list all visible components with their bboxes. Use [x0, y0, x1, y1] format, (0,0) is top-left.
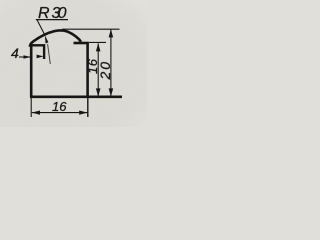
dimension line 16 bottom [32, 112, 88, 114]
leader line R30 [37, 20, 45, 35]
extension line top (for 20) [62, 28, 120, 30]
leader tail line R30 [48, 44, 51, 64]
part outline: right edge [86, 43, 89, 97]
svg-text:4: 4 [11, 45, 19, 61]
arrowhead 16-bottom right [79, 111, 87, 115]
arrowhead 20 top [109, 29, 114, 37]
arrowhead 16-right top [96, 43, 101, 51]
extension bottom-left (for 16 bottom) [30, 98, 32, 117]
inner vertical line [43, 44, 45, 59]
dimension line 20 right [110, 29, 112, 96]
subtle scan shading [0, 0, 147, 127]
dimension line 4 left [19, 56, 30, 58]
arrowhead 4 left (tip at left wall) [24, 55, 31, 59]
arrowhead R30 leader (on arc, pointing up-left) [45, 35, 49, 44]
dimension line 16 right [97, 43, 99, 96]
svg-text:R: R [38, 5, 50, 22]
part outline: top-right step [74, 42, 89, 45]
extension bottom-right [87, 98, 89, 117]
svg-text:30: 30 [52, 5, 67, 22]
svg-text:16: 16 [52, 99, 67, 114]
inner ledge line [31, 44, 45, 46]
part outline: R30 arc top [30, 30, 81, 46]
part outline: left edge [30, 44, 33, 98]
extension line right step (for 16) [89, 41, 106, 43]
arrowhead 16-right bottom [96, 88, 101, 96]
arrowhead 4 right (tip at inner line) [37, 55, 44, 59]
part outline: bottom edge [30, 96, 122, 99]
underline of R30 [36, 19, 68, 21]
arrowhead 20 bottom [109, 88, 114, 96]
arrowhead 16-bottom left [32, 111, 40, 115]
